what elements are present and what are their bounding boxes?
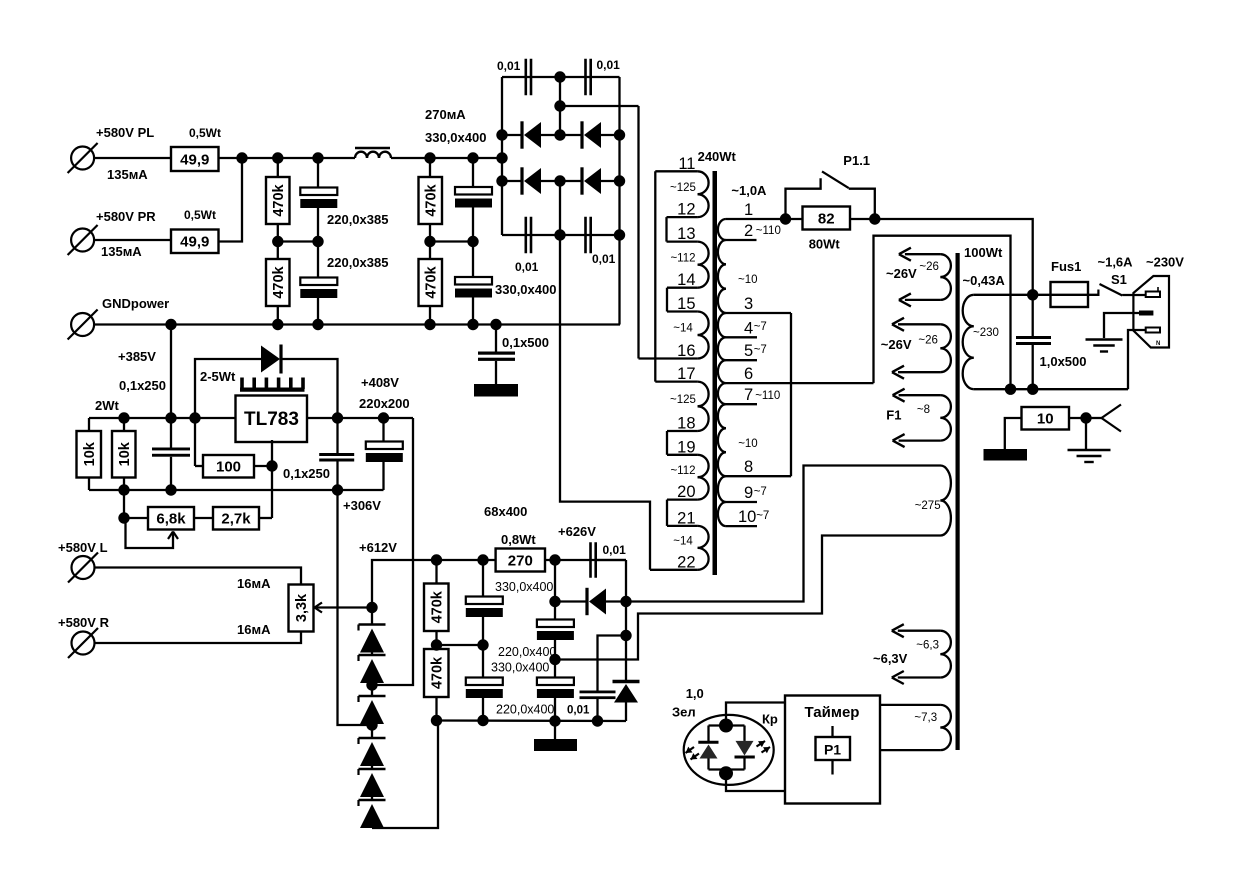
svg-text:220,0x385: 220,0x385 [327,212,388,227]
winding label ~14 [673,323,693,335]
wire tap 9 [726,484,757,502]
resistor 470k #6 [424,645,449,721]
wire tap 8 [726,458,791,476]
switch P1.1 [786,153,875,219]
winding ~6,3V [873,624,951,684]
svg-text:+580V PL: +580V PL [96,125,154,140]
svg-text:0,01: 0,01 [567,705,590,717]
wire join 3-8 [790,313,792,476]
capacitor 0,01 bottom-left [515,217,539,274]
junction [431,554,442,565]
wire tap 18 [667,415,698,433]
junction [118,412,129,423]
wire [277,158,279,177]
junction [549,654,560,665]
winding F1 ~8 [886,389,951,447]
svg-text:2,7k: 2,7k [221,511,251,528]
svg-text:270: 270 [508,552,533,569]
svg-text:100: 100 [216,459,241,476]
transformer T1 secondary windings [698,171,709,570]
svg-text:~0,43A: ~0,43A [963,273,1006,288]
wire join 18-19 [666,431,668,455]
svg-text:135мА: 135мА [107,167,148,182]
resistor 49,9 (0,5Wt) lower [171,208,219,253]
diode D3 [502,167,560,194]
svg-text:0,1x250: 0,1x250 [283,466,330,481]
svg-text:F1: F1 [886,408,901,423]
junction [554,71,565,82]
junction [467,152,478,163]
svg-text:~230V: ~230V [1146,255,1184,270]
wire diode out [626,466,941,602]
fuse Fus1 [1033,259,1099,307]
resistor 470k #2 [266,259,290,306]
svg-text:470k: 470k [271,265,287,298]
wire [95,157,171,159]
chassis frame symbol [1086,405,1121,432]
connector X1 ~230V [1133,276,1169,348]
wire [95,568,301,592]
junction [1080,412,1091,423]
junction [869,213,880,224]
wire join 14-15 [666,288,668,312]
capacitor 330,0x400 #2 [455,277,556,298]
svg-text:14: 14 [677,271,695,289]
wire AC-B route [560,235,650,570]
resistor 6,8k trimmer [124,507,194,530]
junction [554,129,565,140]
junction [496,152,507,163]
svg-text:0,8Wt: 0,8Wt [501,532,536,547]
junction [312,236,323,247]
svg-text:+580V L: +580V L [58,540,108,555]
svg-text:P1.1: P1.1 [843,153,870,168]
junction [165,319,176,330]
svg-text:330,0x400: 330,0x400 [495,580,553,594]
winding label ~125 [670,394,696,406]
junction [554,229,565,240]
wire tap6 route [874,236,1011,390]
junction [592,715,603,726]
svg-text:22: 22 [677,553,695,571]
wire [277,224,279,242]
svg-text:~275: ~275 [915,500,941,512]
wire [1085,418,1087,450]
svg-text:TL783: TL783 [244,409,299,430]
wire tap 4 [726,319,757,337]
svg-text:+580V PR: +580V PR [96,209,156,224]
winding label ~7 [754,321,767,333]
capacitor 0,01 #4 [567,636,626,722]
svg-text:Fus1: Fus1 [1051,259,1081,274]
wire input to bridge [501,157,503,159]
diode D6 [613,636,640,722]
earth ground [1086,340,1123,352]
svg-text:49,9: 49,9 [180,234,209,251]
wire [317,242,319,278]
LED red [735,741,771,757]
terminal +580V L [58,540,108,583]
junction [614,175,625,186]
resistor 2,7k [194,507,259,530]
junction [477,639,488,650]
svg-text:~14: ~14 [673,535,693,547]
svg-text:0,01: 0,01 [515,260,539,274]
junction [312,152,323,163]
svg-text:Зел: Зел [672,705,696,720]
junction [366,602,377,613]
junction [366,679,377,690]
transformer T2 primary ~230 [963,273,1006,389]
svg-text:1: 1 [744,201,753,219]
junction [1027,384,1038,395]
svg-text:5: 5 [744,342,753,360]
wire [597,560,627,602]
junction [424,319,435,330]
svg-text:0,01: 0,01 [597,58,621,72]
junction [266,460,277,471]
junction [620,630,631,641]
svg-text:0,1x250: 0,1x250 [119,378,166,393]
wire tap 14 [667,271,698,289]
wire [472,298,474,325]
svg-text:220,0x400: 220,0x400 [498,645,556,659]
svg-text:0,1x500: 0,1x500 [502,335,549,350]
svg-text:6,8k: 6,8k [156,511,186,528]
winding label ~7 [754,486,767,498]
junction [620,596,631,607]
capacitor 220,0x400 #2 [537,560,574,660]
resistor 82 (80Wt) [803,207,851,252]
svg-text:100Wt: 100Wt [964,245,1003,260]
wire join 12-13 [665,217,667,242]
svg-text:15: 15 [677,295,695,313]
transformer T1 core [698,149,737,575]
svg-text:21: 21 [677,509,695,527]
svg-text:~125: ~125 [670,182,696,194]
wire [495,325,497,352]
wire tap 7 [726,386,757,404]
wire N pin [1128,330,1146,389]
wire [786,218,803,220]
svg-text:~7: ~7 [754,486,767,498]
winding label ~10 [738,438,758,450]
junction [719,766,733,780]
svg-text:19: 19 [677,438,695,456]
wire [429,224,431,242]
capacitor 0,01 top-left [497,59,532,96]
terminal +580V PL [68,125,155,182]
svg-text:9: 9 [744,484,753,502]
trimmer wiper 3,3k [315,603,373,613]
capacitor 0,1x500 [478,335,549,361]
junction [431,639,442,650]
junction [378,412,389,423]
wire join 20-21 [666,500,668,526]
capacitor 330,0x400 #1 [425,107,492,208]
svg-text:82: 82 [818,210,835,227]
svg-text:~7: ~7 [756,510,769,522]
junction [554,175,565,186]
svg-text:Кр: Кр [762,712,778,727]
svg-text:49,9: 49,9 [180,151,209,168]
svg-text:240Wt: 240Wt [698,149,737,164]
wire [95,622,301,643]
wire [625,602,627,636]
wire bridge top [502,76,620,78]
ground bar doubler [534,721,577,751]
junction [272,152,283,163]
wire GND rail [95,323,620,325]
wire zener bottom [372,720,438,829]
wire bridge left rail [501,77,503,235]
svg-text:16мА: 16мА [237,576,271,591]
winding label ~112 [670,252,695,264]
node +306V [343,498,381,513]
heatsink 2-5Wt [200,369,305,390]
svg-text:1,0: 1,0 [686,686,704,701]
wire tap 13 [667,225,698,243]
wire [317,298,319,325]
resistor 10 [1005,407,1069,449]
svg-text:~1,0A: ~1,0A [731,183,767,198]
junction [496,175,507,186]
winding ~26V #2 [881,318,951,379]
svg-text:2: 2 [744,222,753,240]
svg-text:~112: ~112 [670,252,695,264]
chassis ground bar [984,449,1028,461]
winding label ~110 [755,390,780,402]
junction [549,596,560,607]
wire bridge right rail to GND [618,77,620,325]
wire tap 3 [726,295,791,313]
zener string VD2-VD7 [359,608,386,829]
resistor 270 (0,8Wt) [484,504,545,572]
wire TL783 out [307,417,413,419]
node +612V rail [359,540,626,608]
svg-text:3,3k: 3,3k [294,593,310,622]
wire tap 2 [726,222,757,240]
wire bottom rail [89,489,384,491]
capacitor 220,0x385 #2 [300,255,388,298]
wire [429,242,431,260]
capacitor 0,01 top-right [584,58,620,95]
wire tap 12 [667,201,698,219]
svg-text:470k: 470k [423,183,439,216]
diode bypass VD1 [195,345,338,419]
wire doubler mid to winding [555,536,941,660]
junction [272,236,283,247]
resistor 470k #3 [419,177,443,224]
wire tap 20 [667,483,698,501]
junction [467,236,478,247]
relay P1 [816,726,851,775]
resistor 470k #4 [419,259,443,306]
svg-text:270мА: 270мА [425,107,466,122]
wire [123,490,125,518]
svg-text:+306V: +306V [343,498,381,513]
trimmer wiper 6,8k [126,519,179,548]
winding label ~112 [670,465,695,477]
winding label ~125 [670,182,696,194]
junction [477,715,488,726]
junction [467,319,478,330]
junction [165,484,176,495]
wire tap 10 [726,508,757,526]
wire [317,158,319,188]
junction [424,152,435,163]
wire [277,242,279,260]
capacitor 220x200 [359,375,410,490]
wire join 11-17 [654,171,656,381]
winding label ~7 [756,510,769,522]
svg-text:~6,3: ~6,3 [916,640,939,652]
diode D2 [560,121,620,148]
winding ~7,3 [880,705,951,750]
wire [974,388,1128,390]
junction [1027,289,1038,300]
wire earth pin [1104,313,1139,338]
svg-text:~125: ~125 [670,394,696,406]
resistor 10k #2 [112,418,136,490]
junction [118,512,129,523]
svg-text:~26: ~26 [918,335,938,347]
svg-text:10k: 10k [117,441,133,466]
capacitor 0,01 bottom-right [584,217,615,266]
capacitor 1,0x500 [1016,295,1087,389]
inductor L1 [355,148,391,158]
wire [495,361,497,384]
wire [278,240,318,242]
node +385V [95,325,171,419]
junction [614,129,625,140]
wire tap 11 [655,155,697,173]
svg-text:470k: 470k [429,590,445,623]
svg-text:Таймер: Таймер [805,704,860,721]
junction [236,152,247,163]
wire TL783 adj [259,440,272,518]
svg-text:7: 7 [744,386,753,404]
junction [549,715,560,726]
winding label ~10 [738,274,758,286]
junction [165,412,176,423]
svg-text:3: 3 [744,295,753,313]
wire [472,208,474,242]
svg-text:10: 10 [1037,411,1054,428]
svg-text:470k: 470k [271,183,287,216]
wire doubler bottom rail [437,719,627,722]
svg-text:1,0x500: 1,0x500 [1040,354,1087,369]
transformer T1 primary winding [718,219,726,526]
capacitor 330,0x400 #4 [537,660,574,722]
terminal GNDpower [68,296,170,340]
svg-text:12: 12 [677,201,695,219]
wire tap 22 [650,553,698,571]
resistor 470k #1 [266,177,290,224]
svg-text:4: 4 [744,319,753,337]
winding label ~7 [754,344,767,356]
svg-text:~7,3: ~7,3 [914,712,937,724]
svg-text:20: 20 [677,483,695,501]
junction [424,236,435,247]
wire tap 5 [726,342,757,360]
svg-text:2Wt: 2Wt [95,398,120,413]
svg-text:GNDpower: GNDpower [102,296,169,311]
svg-text:~10: ~10 [738,438,758,450]
resistor 470k #5 [424,560,449,645]
svg-text:2-5Wt: 2-5Wt [200,369,236,384]
svg-text:+612V: +612V [359,540,397,555]
optocoupler LEDs [672,686,778,785]
svg-text:80Wt: 80Wt [809,237,841,252]
switch S1 [1098,255,1185,297]
wire [472,158,474,187]
junction [614,229,625,240]
transformer T2 core [956,245,1003,750]
svg-text:68x400: 68x400 [484,504,527,519]
winding label ~110 [756,225,781,237]
svg-text:13: 13 [677,225,695,243]
wire [726,703,785,726]
capacitor 330,0x400 #3 [466,560,554,645]
wire to fuse [875,219,1033,295]
capacitor 0,1x250 #2 [319,418,354,490]
wire [391,157,502,159]
resistor 10k #1 [77,418,102,490]
wire [429,306,431,325]
svg-text:+580V R: +580V R [58,615,110,630]
wire [429,158,431,177]
svg-text:S1: S1 [1111,272,1127,287]
ground bar [474,384,518,397]
junction [780,213,791,224]
junction [189,412,200,423]
wire tap 21 [667,509,698,527]
svg-text:330,0x400: 330,0x400 [425,130,486,145]
label ~1,0A [731,183,767,198]
terminal +580V R [58,615,110,658]
wire tap 17 [655,365,697,383]
wire [430,240,473,242]
svg-text:16: 16 [677,342,695,360]
svg-text:+626V: +626V [558,524,596,539]
junction [332,412,343,423]
wire tap 19 [667,438,698,456]
capacitor 220,0x385 #1 [300,188,388,228]
junction [366,719,377,730]
svg-text:+385V: +385V [118,349,156,364]
svg-text:~6,3V: ~6,3V [873,651,908,666]
wire +408V down-right [372,418,413,685]
junction [549,554,560,565]
wire [974,294,1033,296]
svg-text:16мА: 16мА [237,622,271,637]
svg-text:6: 6 [744,365,753,383]
wire bridge bottom [502,234,620,236]
svg-text:~230: ~230 [973,327,999,339]
svg-text:~7: ~7 [754,321,767,333]
wire [317,208,319,242]
wire tap 15 [667,295,698,313]
wire [437,644,484,646]
wire tap 16 [639,342,698,360]
wire [219,157,356,159]
resistor 100 [195,418,330,481]
svg-text:220,0x400: 220,0x400 [496,703,554,717]
svg-text:~26: ~26 [919,261,939,273]
wire tap 6 [726,365,874,383]
wire [709,726,745,770]
